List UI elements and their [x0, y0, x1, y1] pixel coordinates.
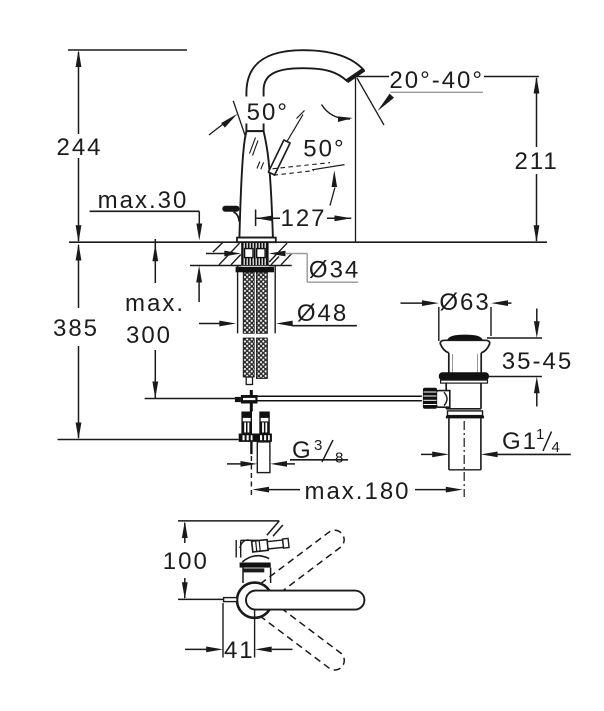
- svg-text:127: 127: [280, 205, 326, 232]
- svg-text:300: 300: [126, 322, 172, 349]
- svg-text:1: 1: [536, 426, 544, 443]
- svg-text:G1: G1: [502, 428, 538, 455]
- svg-text:3: 3: [314, 437, 322, 454]
- svg-text:Ø34: Ø34: [309, 257, 360, 284]
- svg-text:20°-40°: 20°-40°: [389, 67, 484, 94]
- svg-text:G: G: [292, 437, 313, 464]
- svg-text:max.30: max.30: [98, 187, 189, 214]
- svg-text:100: 100: [163, 548, 209, 575]
- svg-text:211: 211: [514, 148, 558, 175]
- svg-text:4: 4: [552, 439, 560, 456]
- svg-text:max.: max.: [125, 290, 185, 317]
- svg-text:244: 244: [56, 134, 102, 161]
- svg-text:50°: 50°: [247, 99, 289, 126]
- svg-text:41: 41: [224, 637, 255, 664]
- svg-text:Ø48: Ø48: [297, 300, 348, 327]
- svg-text:35-45: 35-45: [502, 348, 573, 375]
- svg-text:max.180: max.180: [304, 478, 410, 505]
- svg-text:385: 385: [53, 315, 99, 342]
- svg-text:8: 8: [335, 450, 343, 467]
- svg-text:Ø63: Ø63: [439, 289, 490, 316]
- svg-text:50°: 50°: [303, 136, 345, 163]
